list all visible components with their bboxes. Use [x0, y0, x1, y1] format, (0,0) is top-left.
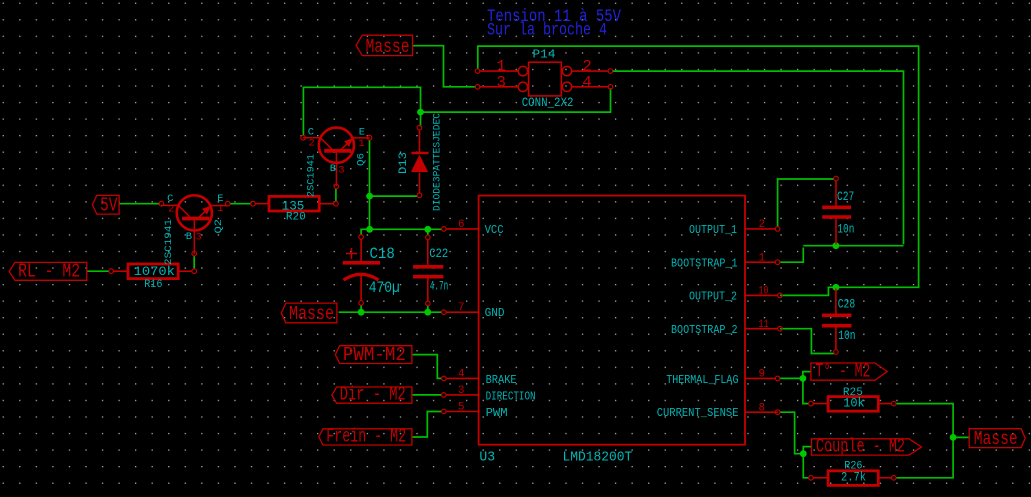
svg-text:LMD18200T: LMD18200T — [563, 451, 633, 466]
svg-text:B: B — [330, 163, 336, 175]
svg-text:CONN_2X2: CONN_2X2 — [522, 95, 574, 110]
svg-text:470µ: 470µ — [369, 279, 400, 297]
svg-text:2: 2 — [759, 219, 766, 231]
svg-text:Dir - M2: Dir - M2 — [340, 384, 406, 406]
svg-text:PWM: PWM — [486, 406, 508, 420]
svg-text:DIODE3PATTESJEDEC: DIODE3PATTESJEDEC — [433, 113, 444, 211]
svg-text:VCC: VCC — [485, 223, 504, 237]
svg-text:BOOTSTRAP_2: BOOTSTRAP_2 — [671, 323, 738, 337]
svg-text:4.7n: 4.7n — [430, 278, 449, 293]
svg-text:4: 4 — [582, 73, 592, 91]
svg-text:2: 2 — [309, 137, 315, 149]
svg-text:3: 3 — [196, 232, 202, 244]
svg-text:Couple - M2: Couple - M2 — [816, 436, 905, 458]
svg-text:Masse: Masse — [974, 428, 1018, 450]
svg-text:BOOTSTRAP_1: BOOTSTRAP_1 — [671, 256, 738, 270]
svg-text:Q2: Q2 — [213, 219, 225, 234]
svg-text:U3: U3 — [479, 451, 495, 466]
svg-text:Masse: Masse — [366, 36, 410, 58]
svg-text:Q6: Q6 — [356, 153, 368, 166]
svg-text:11: 11 — [759, 319, 769, 331]
svg-text:T° - M2: T° - M2 — [815, 361, 870, 383]
svg-text:1: 1 — [759, 252, 766, 264]
svg-text:PWM-M2: PWM-M2 — [343, 344, 406, 366]
svg-text:1: 1 — [217, 203, 223, 215]
svg-text:3: 3 — [496, 73, 506, 91]
svg-text:RL - M2: RL - M2 — [18, 261, 80, 283]
svg-text:Frein - M2: Frein - M2 — [326, 425, 406, 447]
svg-text:THERMAL_FLAG: THERMAL_FLAG — [666, 373, 738, 387]
svg-text:1070k: 1070k — [134, 265, 175, 279]
svg-text:D13: D13 — [398, 152, 410, 174]
svg-text:P14: P14 — [533, 49, 556, 62]
svg-text:GND: GND — [485, 306, 505, 320]
svg-text:10n: 10n — [838, 329, 855, 343]
svg-text:5V: 5V — [100, 195, 118, 217]
svg-text:C28: C28 — [838, 298, 856, 312]
svg-text:2.7k: 2.7k — [841, 471, 866, 485]
svg-text:Masse: Masse — [289, 303, 334, 325]
svg-text:BRAKE: BRAKE — [486, 373, 517, 387]
svg-text:E: E — [359, 127, 365, 139]
svg-text:5: 5 — [458, 402, 465, 414]
svg-text:C22: C22 — [429, 246, 448, 261]
svg-text:B: B — [186, 231, 192, 243]
svg-text:DIRECTION: DIRECTION — [486, 390, 536, 404]
svg-text:R20: R20 — [286, 212, 306, 224]
svg-text:C18: C18 — [370, 245, 395, 263]
svg-text:9: 9 — [759, 369, 766, 381]
svg-text:OUTPUT_2: OUTPUT_2 — [689, 290, 737, 304]
svg-text:2: 2 — [168, 204, 174, 216]
svg-text:3: 3 — [338, 164, 344, 176]
svg-text:Sur la broche 4: Sur la broche 4 — [487, 21, 607, 41]
svg-text:C27: C27 — [837, 190, 854, 204]
svg-text:3: 3 — [458, 385, 465, 397]
svg-text:6: 6 — [458, 219, 465, 231]
svg-text:R16: R16 — [144, 279, 162, 291]
svg-text:8: 8 — [759, 402, 766, 414]
svg-text:1: 1 — [358, 138, 364, 150]
svg-text:10n: 10n — [837, 222, 854, 236]
svg-text:OUTPUT_1: OUTPUT_1 — [689, 223, 737, 237]
svg-text:4: 4 — [458, 369, 465, 381]
svg-text:10: 10 — [759, 286, 769, 298]
svg-text:CURRENT_SENSE: CURRENT_SENSE — [657, 406, 739, 420]
svg-text:2SC1941: 2SC1941 — [307, 154, 318, 197]
svg-text:2SC1941: 2SC1941 — [164, 219, 175, 265]
svg-text:7: 7 — [458, 302, 465, 314]
svg-text:10k: 10k — [843, 396, 865, 410]
